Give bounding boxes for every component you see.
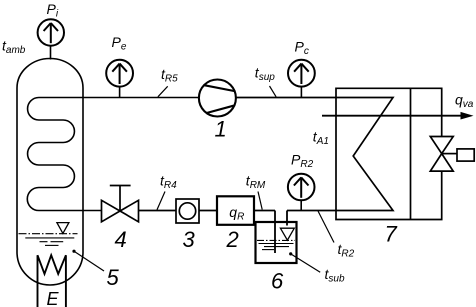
condenser 7 outer box (336, 88, 442, 219)
svg-text:tR2: tR2 (338, 241, 355, 260)
flow meter 3 (circle in square) (176, 199, 199, 223)
leader t_R4 (157, 192, 165, 210)
svg-text:PR2: PR2 (291, 152, 314, 171)
coil (evaporator serpentine inside vessel 5) (27, 98, 198, 211)
svg-text:1: 1 (215, 117, 227, 142)
condenser zigzag coil (336, 98, 393, 211)
svg-text:qR: qR (229, 204, 244, 223)
wire vessel6 outlet down-pipe (286, 211, 288, 226)
wire box3 to box2 (199, 210, 217, 212)
svg-text:2: 2 (226, 227, 239, 252)
wire vessel6 inlet down-pipe (274, 211, 276, 254)
svg-text:tR4: tR4 (160, 173, 177, 192)
leader t_sub with dot (289, 252, 292, 255)
svg-text:Pi: Pi (47, 1, 59, 20)
gauge Pc (288, 60, 315, 98)
leader t_RM (258, 192, 262, 210)
svg-text:tsub: tsub (325, 266, 345, 285)
expansion valve 4 (102, 186, 139, 222)
condenser divider (410, 88, 412, 219)
valve on condenser right edge (430, 137, 457, 172)
leader t_sup (270, 86, 277, 97)
air flow arrow q_va (322, 115, 462, 117)
svg-text:5: 5 (107, 265, 120, 290)
gauge PR2 (288, 174, 315, 211)
svg-text:7: 7 (385, 222, 398, 247)
svg-text:E: E (47, 289, 60, 307)
svg-text:Pe: Pe (112, 34, 127, 53)
wire bottom pipe condenser to PR2 node (287, 210, 336, 212)
svg-text:6: 6 (271, 269, 284, 294)
svg-text:tA1: tA1 (313, 129, 329, 148)
valve actuator box (457, 149, 474, 161)
gauge Pe (106, 60, 133, 98)
gauge Pi (38, 19, 64, 59)
vessel 5 level mark triangle (57, 223, 69, 234)
leader t_R5 (158, 86, 168, 97)
svg-text:4: 4 (115, 227, 127, 252)
svg-text:qva: qva (455, 92, 474, 111)
vessel 5 liquid surface lines (19, 234, 78, 246)
leader t_R2 (318, 211, 334, 243)
wire box2 to vessel6 (254, 210, 275, 212)
svg-text:tsup: tsup (255, 65, 275, 84)
wire valve4 to box3 (139, 210, 177, 212)
heater element W (38, 255, 66, 289)
svg-text:3: 3 (183, 227, 196, 252)
vessel 6 liquid surface lines (257, 240, 295, 249)
vessel 6 level mark triangle (280, 228, 294, 240)
heater leads E box (38, 289, 66, 307)
compressor U1 (199, 80, 236, 117)
vessel V5 body (17, 59, 83, 286)
label 5 leader with dot (72, 250, 75, 253)
svg-text:tRM: tRM (246, 173, 266, 192)
wire top pipe compressor to condenser (236, 97, 336, 99)
svg-text:Pc: Pc (295, 39, 309, 58)
svg-text:tR5: tR5 (161, 66, 178, 85)
svg-text:tamb: tamb (2, 38, 26, 57)
heat meter box 2 (q_R) (217, 196, 254, 225)
vessel 6 (subcooler pot) (256, 222, 297, 263)
